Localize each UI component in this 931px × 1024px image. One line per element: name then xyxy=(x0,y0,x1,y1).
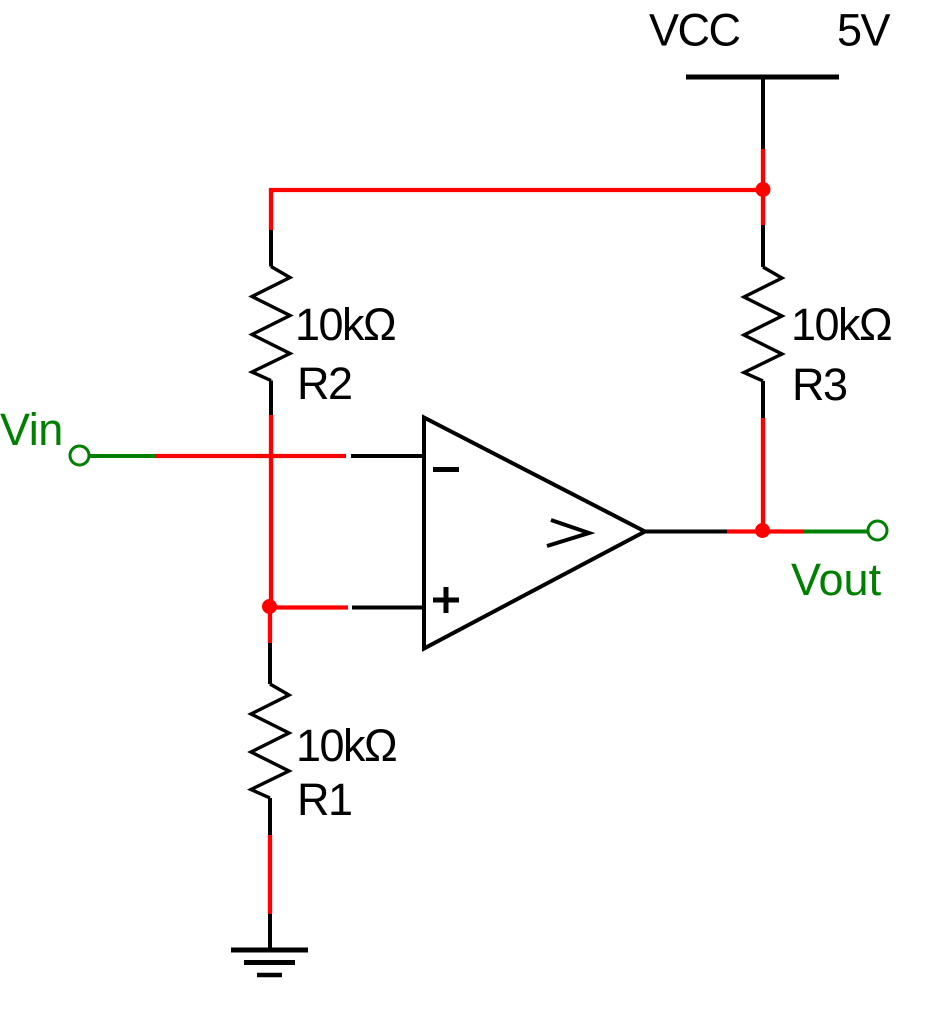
svg-text:10kΩ: 10kΩ xyxy=(791,299,891,350)
svg-text:R3: R3 xyxy=(792,359,847,410)
svg-text:10kΩ: 10kΩ xyxy=(295,299,395,350)
svg-text:5V: 5V xyxy=(837,5,891,56)
svg-text:Vin: Vin xyxy=(0,404,63,455)
svg-text:VCC: VCC xyxy=(649,5,740,56)
svg-text:10kΩ: 10kΩ xyxy=(296,720,396,771)
svg-text:Vout: Vout xyxy=(791,554,882,605)
svg-text:R1: R1 xyxy=(297,774,352,825)
svg-text:R2: R2 xyxy=(297,358,352,409)
